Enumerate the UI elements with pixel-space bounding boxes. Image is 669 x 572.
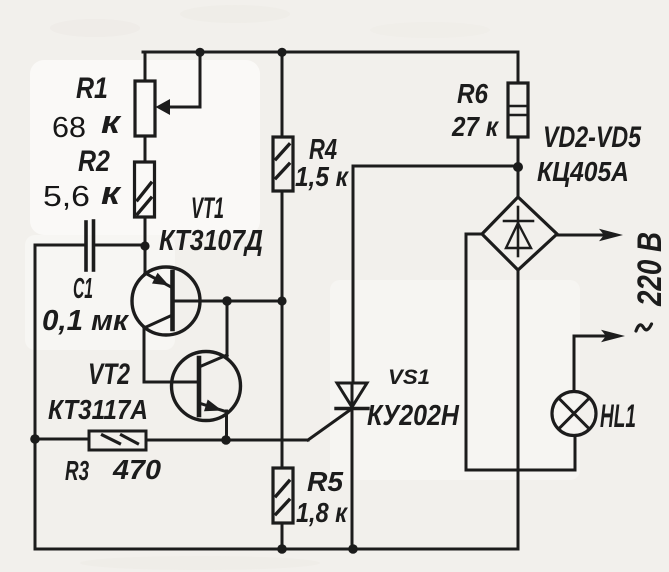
svg-text:1,8 к: 1,8 к [296,498,349,528]
svg-text:КЦ405А: КЦ405А [537,156,629,188]
svg-text:HL1: HL1 [600,398,636,434]
svg-text:VS1: VS1 [388,365,430,389]
svg-text:R5: R5 [307,466,343,497]
svg-text:R2: R2 [78,144,111,178]
svg-text:0,1 мк: 0,1 мк [42,305,129,337]
svg-text:68: 68 [52,112,86,144]
svg-text:R6: R6 [457,77,488,109]
svg-text:С1: С1 [73,272,93,304]
svg-text:5,6: 5,6 [43,179,90,212]
svg-text:КТ3117А: КТ3117А [48,393,148,425]
svg-text:к: к [101,176,123,212]
svg-text:1,5 к: 1,5 к [295,160,350,192]
svg-text:к: к [101,105,123,141]
svg-text:R1: R1 [76,71,108,105]
svg-text:220 В: 220 В [630,232,668,307]
svg-text:27 к: 27 к [451,110,500,142]
svg-text:VT1: VT1 [191,193,224,226]
svg-text:R3: R3 [65,455,89,487]
svg-text:VT2: VT2 [88,357,130,391]
svg-text:VD2-VD5: VD2-VD5 [543,120,642,154]
svg-text:КТ3107Д: КТ3107Д [159,224,263,256]
svg-text:КУ202Н: КУ202Н [367,399,459,431]
svg-text:470: 470 [112,454,161,486]
